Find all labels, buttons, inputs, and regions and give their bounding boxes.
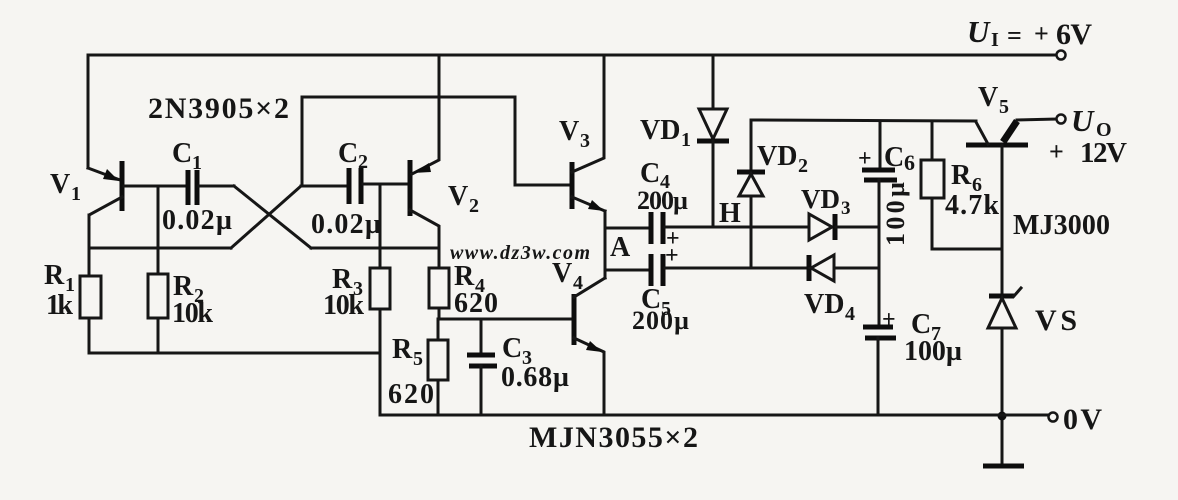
- ground symbol: [983, 464, 1024, 469]
- svg-text:R: R: [44, 260, 65, 291]
- svg-text:5: 5: [413, 348, 423, 370]
- wire R3 bottom to ground rail: [379, 309, 382, 415]
- wire H line (C4 right to C6): [665, 226, 809, 229]
- svg-text:www.dz3w.com: www.dz3w.com: [450, 242, 590, 264]
- transistor V2 emitter lead: [412, 55, 439, 174]
- transistor V4 emitter lead: [574, 338, 604, 415]
- resistor R1 lead: [88, 215, 91, 276]
- transistor V1 collector lead: [89, 197, 122, 276]
- svg-text:4.7k: 4.7k: [945, 190, 999, 221]
- wire left ground line: [89, 352, 380, 355]
- svg-text:=: =: [1007, 21, 1022, 50]
- svg-text:V: V: [448, 181, 468, 212]
- svg-text:1: 1: [192, 152, 202, 174]
- wire R2 branch from V1 base: [157, 186, 160, 274]
- wire C2 left: [301, 185, 347, 188]
- resistor R4 box: [429, 268, 449, 308]
- wire V1 base line: [124, 185, 186, 188]
- transistor V5 emitter lead (arrow): [1003, 121, 1017, 142]
- capacitor C1 plates: [186, 170, 191, 205]
- zener VS triangle: [988, 298, 1016, 328]
- diode VD1 cathode bar: [697, 139, 729, 144]
- transistor V3 emitter lead: [572, 197, 605, 211]
- svg-text:U: U: [967, 14, 991, 49]
- svg-text:0.02µ: 0.02µ: [311, 209, 381, 240]
- resistor R6 box: [921, 160, 944, 198]
- transistor V4 emitter arrow (NPN): [586, 341, 602, 352]
- svg-text:+: +: [1049, 137, 1064, 166]
- svg-text:V: V: [559, 116, 579, 147]
- svg-text:+: +: [1034, 19, 1049, 48]
- zener VS bar: [989, 294, 1014, 299]
- svg-text:H: H: [719, 198, 741, 229]
- transistor V2 collector lead: [410, 210, 439, 268]
- resistor R6 top lead: [931, 121, 934, 160]
- svg-text:12V: 12V: [1080, 137, 1127, 169]
- diode VD1 triangle: [699, 109, 727, 139]
- svg-text:620: 620: [454, 288, 498, 319]
- capacitor C3 plates: [467, 353, 495, 358]
- wire cross diagonal up (V1 collector to C2): [231, 186, 301, 248]
- capacitor C4 plates: [649, 212, 654, 244]
- wire V5 emitter to output terminal: [1017, 119, 1056, 120]
- svg-text:VD: VD: [757, 141, 797, 172]
- svg-text:2: 2: [469, 195, 479, 217]
- resistor R5 lead top: [437, 319, 440, 340]
- wire C2 right to V2 base: [363, 183, 408, 186]
- svg-text:+: +: [665, 243, 679, 269]
- wire cross diagonal down (C1 to V2 collector line): [234, 186, 311, 248]
- svg-text:2: 2: [358, 151, 368, 173]
- svg-text:6: 6: [904, 150, 915, 175]
- svg-text:4: 4: [845, 303, 855, 325]
- wire R6 bottom to V5 base: [932, 198, 1002, 249]
- svg-text:V: V: [978, 82, 998, 113]
- transistor V4 collector lead: [574, 278, 605, 297]
- wire branch up to loop: [301, 97, 304, 186]
- svg-text:200µ: 200µ: [637, 186, 688, 215]
- wire V4 base line: [439, 318, 571, 321]
- svg-text:3: 3: [580, 130, 590, 152]
- svg-text:2N3905×2: 2N3905×2: [148, 92, 289, 125]
- transistor V3 emitter arrow (NPN): [588, 200, 604, 211]
- wire V3 base line: [515, 184, 570, 187]
- svg-text:0.68µ: 0.68µ: [501, 362, 569, 393]
- diode VD3 cathode bar: [833, 214, 838, 240]
- diode VD1 cathode wire to H: [712, 141, 715, 227]
- svg-text:C: C: [640, 158, 660, 189]
- capacitor C5 left wire: [605, 269, 649, 272]
- zener VS bar tick: [1014, 288, 1021, 296]
- capacitor C6 top lead: [879, 121, 882, 170]
- svg-text:C: C: [338, 138, 358, 169]
- transistor V3 collector lead: [572, 55, 604, 172]
- capacitor C6 plates: [862, 168, 895, 173]
- node U_O output terminal: [1057, 115, 1066, 124]
- wire top +6V rail: [88, 54, 1056, 57]
- capacitor C5 plates: [649, 254, 654, 286]
- transistor V1 emitter lead: [88, 168, 120, 180]
- wire doubled-voltage top line: [751, 120, 976, 121]
- capacitor C4 left wire: [605, 227, 649, 230]
- diode VD1 anode wire from rail: [712, 55, 715, 109]
- svg-text:MJ3000: MJ3000: [1013, 210, 1110, 241]
- svg-text:VD: VD: [804, 289, 844, 320]
- wire VD4 to C6/C7: [835, 267, 879, 270]
- svg-text:10k: 10k: [172, 298, 213, 329]
- wire C7 bottom: [877, 338, 880, 415]
- svg-text:C: C: [172, 138, 192, 169]
- wire R1 bottom: [88, 318, 91, 353]
- diode VD3 triangle: [809, 214, 832, 240]
- wire C5 right line to VD4: [665, 267, 809, 270]
- resistor R3 box: [370, 268, 390, 309]
- resistor R5 box: [428, 340, 448, 380]
- wire R3 branch: [379, 184, 382, 268]
- transistor V2 bar: [408, 160, 413, 216]
- svg-text:100µ: 100µ: [881, 182, 910, 246]
- svg-text:1k: 1k: [46, 290, 73, 321]
- svg-text:+: +: [882, 307, 896, 333]
- svg-text:1: 1: [681, 129, 691, 151]
- capacitor C3 top lead: [480, 319, 483, 355]
- resistor R2 box: [148, 274, 168, 318]
- diode VD2 anode wire down to C5 line: [750, 196, 753, 268]
- svg-text:VD: VD: [640, 115, 680, 146]
- transistor V5 bar: [966, 143, 1028, 148]
- svg-text:1: 1: [71, 183, 81, 205]
- wire loop horizontal: [302, 96, 515, 99]
- svg-text:0.02µ: 0.02µ: [162, 205, 232, 236]
- wire R4 bottom to V4 base line: [438, 308, 441, 319]
- wire V1 emitter vertical from rail: [87, 55, 90, 168]
- svg-text:3: 3: [841, 198, 851, 219]
- diode VD4 cathode bar: [807, 255, 812, 281]
- diode VD2 cathode bar: [737, 170, 765, 175]
- svg-text:0V: 0V: [1063, 403, 1102, 436]
- transistor V5 collector lead: [976, 122, 988, 144]
- capacitor C3 bottom lead: [480, 366, 483, 415]
- capacitor C2 plates: [347, 168, 352, 204]
- svg-text:R: R: [392, 334, 413, 365]
- wire C1 right: [199, 185, 234, 188]
- wire C6 bottom through junctions to C7: [878, 180, 881, 327]
- node junction dot: [998, 412, 1007, 421]
- transistor V1 bar: [120, 161, 125, 211]
- wire V2 collector line: [311, 247, 439, 250]
- wire R2 bottom: [157, 318, 160, 353]
- svg-text:100µ: 100µ: [904, 336, 962, 367]
- transistor V3 bar: [570, 162, 575, 209]
- wire V5 base vertical down: [1001, 145, 1004, 297]
- svg-text:5: 5: [999, 96, 1009, 118]
- wire bottom 0V rail: [380, 414, 1048, 417]
- svg-text:V: V: [50, 169, 70, 200]
- diode VD2 cathode wire to top line: [750, 120, 753, 172]
- transistor V4 bar: [572, 294, 577, 345]
- svg-text:200µ: 200µ: [632, 306, 689, 335]
- wire node A vertical: [604, 211, 607, 278]
- wire V1 collector line: [89, 247, 231, 250]
- wire VS bottom to rail: [1001, 328, 1004, 463]
- svg-text:A: A: [610, 232, 631, 263]
- transistor V1 emitter arrow (PNP): [103, 169, 119, 181]
- svg-text:620: 620: [388, 379, 434, 410]
- svg-text:+: +: [858, 146, 872, 172]
- resistor R1 box: [80, 276, 101, 318]
- capacitor C7 plates: [863, 325, 893, 330]
- svg-text:VD: VD: [801, 184, 840, 214]
- svg-text:I: I: [991, 29, 999, 51]
- svg-text:6V: 6V: [1056, 18, 1092, 51]
- diode VD4 triangle: [811, 255, 834, 281]
- svg-text:U: U: [1071, 103, 1095, 138]
- svg-text:C: C: [884, 142, 904, 173]
- wire VD3 to C6: [836, 226, 879, 229]
- svg-text:C: C: [502, 333, 522, 364]
- wire R5 bottom: [437, 380, 440, 415]
- node +6V input terminal: [1057, 51, 1066, 60]
- transistor V2 emitter arrow (PNP): [413, 163, 431, 173]
- svg-text:R: R: [951, 160, 972, 191]
- diode VD2 triangle: [739, 174, 763, 196]
- node 0V terminal: [1049, 413, 1058, 422]
- svg-text:2: 2: [798, 155, 808, 177]
- svg-text:10k: 10k: [323, 290, 364, 321]
- svg-text:VS: VS: [1035, 304, 1077, 337]
- wire loop down to V3 base: [514, 97, 517, 185]
